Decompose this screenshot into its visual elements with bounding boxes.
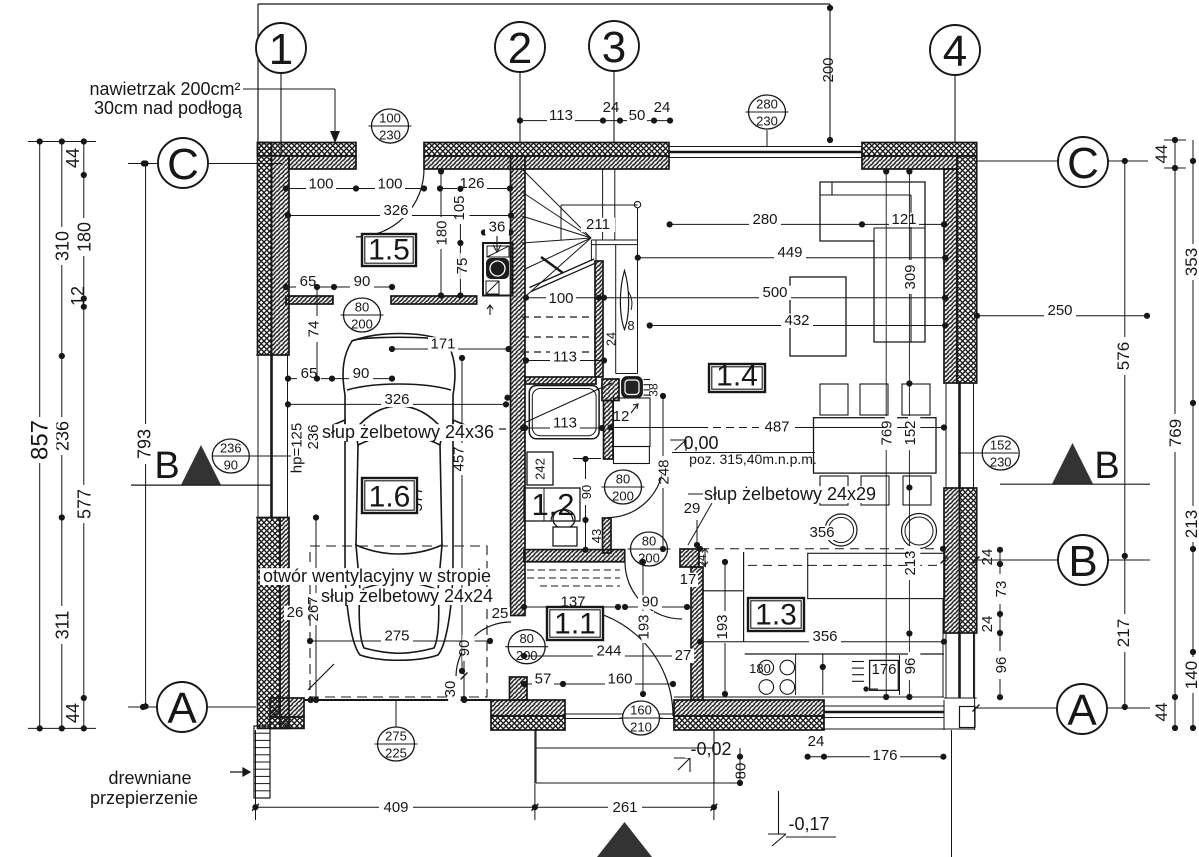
svg-text:152: 152 <box>990 438 1012 453</box>
svg-text:353: 353 <box>1182 248 1199 276</box>
svg-text:38: 38 <box>647 383 661 397</box>
svg-text:17: 17 <box>680 571 697 588</box>
svg-text:409: 409 <box>383 799 408 816</box>
svg-text:24: 24 <box>979 549 996 566</box>
svg-text:24: 24 <box>979 616 996 633</box>
svg-text:24: 24 <box>605 332 619 346</box>
svg-text:500: 500 <box>762 284 787 301</box>
svg-text:100: 100 <box>377 176 402 193</box>
svg-text:171: 171 <box>430 336 455 353</box>
svg-text:B: B <box>154 445 179 487</box>
svg-text:769: 769 <box>879 420 896 445</box>
svg-text:96: 96 <box>902 658 919 675</box>
svg-text:65: 65 <box>300 273 317 290</box>
svg-text:210: 210 <box>630 720 652 735</box>
svg-text:309: 309 <box>902 264 919 289</box>
svg-text:96: 96 <box>993 657 1010 674</box>
svg-text:43: 43 <box>589 529 604 543</box>
svg-text:113: 113 <box>553 349 577 366</box>
svg-text:356: 356 <box>809 524 834 541</box>
svg-text:80: 80 <box>732 763 749 780</box>
svg-text:-0,02: -0,02 <box>690 739 731 759</box>
svg-text:275: 275 <box>384 628 409 645</box>
svg-text:44: 44 <box>63 703 83 723</box>
svg-text:217: 217 <box>1114 619 1133 647</box>
svg-text:12: 12 <box>68 286 88 306</box>
svg-text:242: 242 <box>533 458 548 480</box>
svg-text:90: 90 <box>456 640 473 657</box>
svg-text:275: 275 <box>385 729 407 744</box>
svg-text:487: 487 <box>764 419 789 436</box>
svg-text:211: 211 <box>586 216 610 233</box>
svg-text:230: 230 <box>990 455 1012 470</box>
svg-text:nawietrzak 200cm²: nawietrzak 200cm² <box>89 79 240 99</box>
svg-text:1.5: 1.5 <box>368 234 410 267</box>
svg-text:140: 140 <box>1182 661 1199 689</box>
svg-text:100: 100 <box>308 176 333 193</box>
svg-text:90: 90 <box>642 594 659 611</box>
svg-text:152: 152 <box>902 420 919 445</box>
svg-text:przepierzenie: przepierzenie <box>90 788 198 808</box>
svg-text:326: 326 <box>384 391 409 408</box>
svg-text:793: 793 <box>135 429 155 459</box>
svg-text:193: 193 <box>635 614 652 639</box>
svg-text:432: 432 <box>784 312 809 329</box>
svg-text:180: 180 <box>749 661 771 676</box>
svg-text:1.3: 1.3 <box>755 599 797 632</box>
svg-text:25: 25 <box>492 605 509 622</box>
svg-text:12: 12 <box>613 408 630 425</box>
svg-text:24: 24 <box>654 99 671 116</box>
svg-text:80: 80 <box>519 631 533 646</box>
svg-text:2: 2 <box>508 24 532 73</box>
svg-text:30cm nad podłogą: 30cm nad podłogą <box>94 98 243 118</box>
svg-text:248: 248 <box>655 459 672 484</box>
svg-text:44: 44 <box>1152 145 1171 164</box>
svg-text:193: 193 <box>714 614 731 639</box>
svg-text:244: 244 <box>596 643 621 660</box>
svg-text:236: 236 <box>220 441 242 456</box>
svg-text:1.1: 1.1 <box>554 608 596 641</box>
svg-text:B: B <box>1068 537 1097 586</box>
svg-text:326: 326 <box>383 202 408 219</box>
svg-text:310: 310 <box>52 231 72 261</box>
svg-text:słup żelbetowy 24x24: słup żelbetowy 24x24 <box>321 586 493 606</box>
svg-text:słup żelbetowy 24x36: słup żelbetowy 24x36 <box>322 422 494 442</box>
svg-text:27: 27 <box>675 647 692 664</box>
svg-text:otwór wentylacyjny w stropie: otwór wentylacyjny w stropie <box>263 566 491 586</box>
svg-text:230: 230 <box>379 128 401 143</box>
svg-text:200: 200 <box>612 489 634 504</box>
svg-text:577: 577 <box>74 489 94 519</box>
svg-text:160: 160 <box>607 671 632 688</box>
svg-text:121: 121 <box>891 211 916 228</box>
svg-text:113: 113 <box>553 415 577 432</box>
svg-text:457: 457 <box>450 446 467 471</box>
svg-text:200: 200 <box>820 57 837 82</box>
svg-text:3: 3 <box>602 23 626 72</box>
svg-text:449: 449 <box>777 244 802 261</box>
svg-text:1: 1 <box>269 25 293 74</box>
svg-text:176: 176 <box>871 661 896 678</box>
svg-text:261: 261 <box>612 799 637 816</box>
svg-text:280: 280 <box>752 211 777 228</box>
svg-text:160: 160 <box>630 703 652 718</box>
svg-text:4: 4 <box>943 27 967 76</box>
svg-text:44: 44 <box>63 148 83 168</box>
svg-text:1.2: 1.2 <box>531 487 574 522</box>
svg-text:24: 24 <box>695 554 709 568</box>
svg-text:225: 225 <box>385 746 407 761</box>
svg-text:100: 100 <box>379 111 401 126</box>
svg-text:74: 74 <box>306 321 323 338</box>
svg-text:90: 90 <box>354 273 371 290</box>
svg-text:180: 180 <box>433 220 450 245</box>
svg-text:24: 24 <box>808 733 825 750</box>
svg-text:24: 24 <box>603 99 620 116</box>
svg-text:hp=125: hp=125 <box>288 423 305 473</box>
svg-text:769: 769 <box>1166 419 1185 447</box>
svg-text:73: 73 <box>993 581 1010 598</box>
svg-text:1.6: 1.6 <box>369 481 411 514</box>
svg-text:1.4: 1.4 <box>716 360 758 393</box>
svg-text:90: 90 <box>224 458 238 473</box>
svg-text:36: 36 <box>489 219 506 236</box>
svg-text:57: 57 <box>535 671 552 688</box>
svg-text:230: 230 <box>756 114 778 129</box>
svg-text:8: 8 <box>627 318 634 333</box>
svg-text:A: A <box>167 684 197 733</box>
svg-text:80: 80 <box>355 300 369 315</box>
svg-text:C: C <box>167 140 199 189</box>
svg-text:280: 280 <box>756 97 778 112</box>
svg-text:26: 26 <box>287 604 304 621</box>
svg-text:857: 857 <box>27 420 54 460</box>
svg-text:311: 311 <box>52 611 72 640</box>
svg-text:C: C <box>1067 139 1099 188</box>
svg-text:213: 213 <box>902 550 919 575</box>
svg-text:180: 180 <box>74 222 94 252</box>
svg-text:drewniane: drewniane <box>108 768 191 788</box>
svg-text:100: 100 <box>548 290 573 307</box>
svg-text:80: 80 <box>642 534 656 549</box>
svg-text:105: 105 <box>451 195 468 220</box>
svg-text:576: 576 <box>1114 342 1133 370</box>
svg-text:poz. 315,40m.n.p.m.: poz. 315,40m.n.p.m. <box>689 451 817 467</box>
svg-text:250: 250 <box>1047 302 1072 319</box>
svg-text:-0,17: -0,17 <box>788 814 829 834</box>
svg-text:30: 30 <box>442 681 459 698</box>
svg-text:200: 200 <box>351 317 373 332</box>
svg-text:A: A <box>1067 686 1097 735</box>
svg-text:słup żelbetowy 24x29: słup żelbetowy 24x29 <box>704 484 876 504</box>
svg-text:50: 50 <box>629 107 646 124</box>
svg-text:80: 80 <box>616 472 630 487</box>
svg-text:90: 90 <box>579 485 594 499</box>
svg-text:176: 176 <box>872 747 897 764</box>
svg-text:B: B <box>1094 445 1119 487</box>
svg-text:356: 356 <box>812 628 837 645</box>
svg-text:90: 90 <box>353 365 370 382</box>
svg-text:213: 213 <box>1182 510 1199 538</box>
svg-text:113: 113 <box>549 107 573 124</box>
svg-text:44: 44 <box>1152 703 1171 722</box>
svg-text:75: 75 <box>454 258 471 275</box>
svg-text:0,00: 0,00 <box>683 433 718 453</box>
